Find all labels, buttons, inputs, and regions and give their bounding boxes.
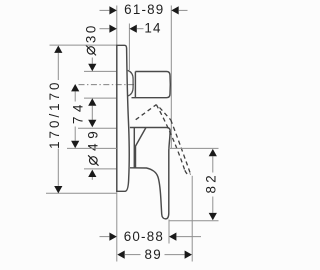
dimension dia49 (78, 127, 117, 180)
svg-text:170/170: 170/170 (47, 79, 62, 148)
svg-text:61-89: 61-89 (124, 2, 164, 17)
dimension 14 (100, 21, 162, 70)
lever handle solid (130, 128, 170, 219)
dimension 170/170 (46, 45, 117, 193)
centerline knob axis (79, 84, 135, 86)
svg-text:49: 49 (86, 127, 101, 151)
dimension 60-88 (100, 220, 202, 244)
dimension dia74 (71, 84, 86, 148)
svg-text:74: 74 (71, 100, 86, 124)
escutcheon plate (117, 45, 129, 191)
dimension dia30 (83, 23, 117, 127)
svg-text:82: 82 (204, 172, 219, 193)
svg-text:60-88: 60-88 (124, 229, 164, 244)
neck fillet (128, 70, 133, 96)
knob sleeve (132, 72, 171, 98)
dimension 61-89 (100, 2, 188, 148)
svg-text:30: 30 (83, 23, 98, 43)
dimension 89 (117, 176, 192, 262)
svg-text:14: 14 (144, 21, 161, 36)
lever handle raised dashed (136, 105, 191, 175)
wall extension line (116, 6, 118, 262)
dimension 82 (67, 148, 219, 220)
svg-text:89: 89 (145, 247, 162, 262)
